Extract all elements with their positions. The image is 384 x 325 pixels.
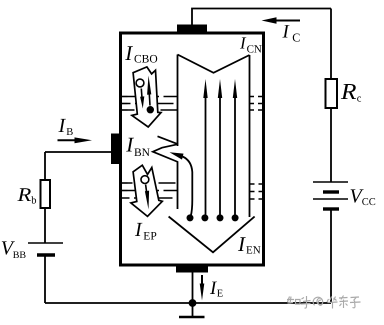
- top V collector boundary: [178, 55, 250, 73]
- collector junction depletion right: [250, 97, 264, 111]
- collector contact: [177, 25, 207, 34]
- emitter contact: [176, 264, 208, 273]
- current arrow I_C: [262, 17, 301, 23]
- ground bar: [179, 316, 205, 318]
- svg-text:R: R: [16, 185, 31, 206]
- svg-text:CN: CN: [247, 43, 262, 55]
- electron dot I_CBO: [147, 106, 154, 113]
- resistor Rc: [326, 79, 338, 108]
- svg-text:I: I: [58, 115, 67, 137]
- svg-text:CC: CC: [362, 197, 376, 208]
- electron stream arrow 3: [233, 79, 237, 217]
- wire bottom rail: [45, 302, 331, 304]
- junction dot on bottom rail: [189, 299, 197, 307]
- base contact: [111, 134, 120, 165]
- junction boundary right: [249, 55, 251, 217]
- svg-text:BB: BB: [13, 250, 27, 261]
- wire left rail: [44, 152, 46, 303]
- hole injection arrow down: [145, 185, 149, 210]
- emitter junction depletion left: [121, 183, 178, 198]
- battery Vbb: [28, 243, 63, 255]
- I_EP hollow arrow: [131, 165, 162, 216]
- svg-text:I: I: [237, 232, 246, 256]
- recombination electron path to base: [170, 152, 193, 216]
- I_BN hollow arrow lower zigzag: [153, 144, 178, 162]
- svg-text:CBO: CBO: [134, 53, 158, 65]
- svg-text:C: C: [292, 31, 300, 45]
- hole circle I_CBO: [136, 79, 144, 87]
- electron dots at emitter boundary: [187, 214, 194, 221]
- svg-text:I: I: [125, 132, 134, 156]
- hole drift arrow down: [140, 89, 144, 109]
- collector junction depletion left: [121, 97, 178, 111]
- svg-text:I: I: [134, 219, 143, 241]
- svg-text:c: c: [357, 94, 362, 105]
- electron stream arrow 1: [203, 79, 207, 217]
- bottom V emitter boundary: [169, 217, 255, 253]
- emitter wire down: [192, 273, 194, 318]
- wire top from collector to right rail: [192, 9, 331, 26]
- electron stream arrow 2: [218, 79, 222, 217]
- wire base lead: [45, 151, 112, 153]
- svg-text:BN: BN: [134, 147, 151, 159]
- svg-text:R: R: [340, 79, 357, 104]
- wire right rail: [330, 9, 332, 304]
- watermark: [287, 296, 361, 309]
- current arrow I_E: [200, 275, 205, 301]
- battery Vcc: [313, 182, 348, 209]
- svg-text:B: B: [66, 127, 73, 138]
- svg-text:b: b: [31, 196, 36, 207]
- resistor Rb: [41, 180, 51, 208]
- junction boundary left lower segment: [177, 162, 179, 210]
- current arrow I_B: [58, 137, 93, 143]
- electron drift arrow up: [147, 76, 151, 106]
- svg-text:EP: EP: [143, 231, 156, 243]
- svg-text:I: I: [124, 41, 133, 65]
- I_CBO hollow arrow: [132, 67, 161, 127]
- svg-text:E: E: [217, 288, 223, 299]
- hole circle I_EP: [141, 176, 149, 184]
- svg-text:EN: EN: [246, 245, 261, 257]
- emitter junction depletion right: [250, 184, 263, 199]
- I_BN break mask: [155, 138, 177, 161]
- junction boundary left upper segment: [177, 55, 179, 147]
- I_BN hollow arrow upper edge: [158, 136, 179, 144]
- transistor body: [121, 33, 264, 265]
